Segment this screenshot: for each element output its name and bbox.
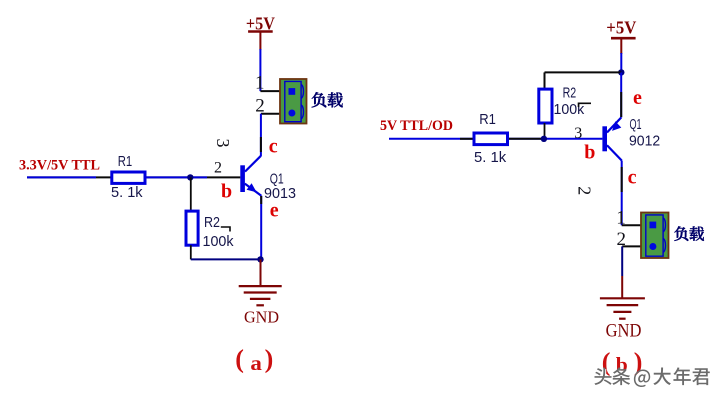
svg-text:R1: R1 [479,111,496,128]
svg-text:R2: R2 [563,85,577,102]
svg-text:c: c [269,136,278,158]
svg-text:5. 1k: 5. 1k [474,149,507,166]
svg-text:2: 2 [214,159,222,176]
svg-text:3: 3 [574,125,582,142]
svg-text:5. 1k: 5. 1k [111,184,143,201]
svg-text:GND: GND [606,320,642,341]
svg-text:5V TTL/OD: 5V TTL/OD [380,118,453,134]
svg-text:b: b [584,142,595,164]
svg-text:(: ( [235,345,244,374]
svg-text:e: e [633,87,642,109]
svg-text:+5V: +5V [606,18,636,38]
svg-text:b: b [221,181,232,203]
svg-text:e: e [270,200,279,222]
svg-text:100k: 100k [203,233,234,250]
svg-text:Q1: Q1 [630,116,642,133]
svg-text:9012: 9012 [629,133,660,150]
svg-text:c: c [628,167,637,189]
svg-text:3.3V/5V TTL: 3.3V/5V TTL [19,157,100,173]
svg-text:GND: GND [244,308,279,327]
svg-text:): ) [265,345,274,374]
svg-text:9013: 9013 [264,185,296,202]
svg-text:R1: R1 [118,153,133,170]
svg-text:a: a [250,351,262,375]
svg-text:3: 3 [213,139,233,148]
svg-text:2: 2 [574,186,594,195]
svg-text:R2: R2 [204,214,220,231]
